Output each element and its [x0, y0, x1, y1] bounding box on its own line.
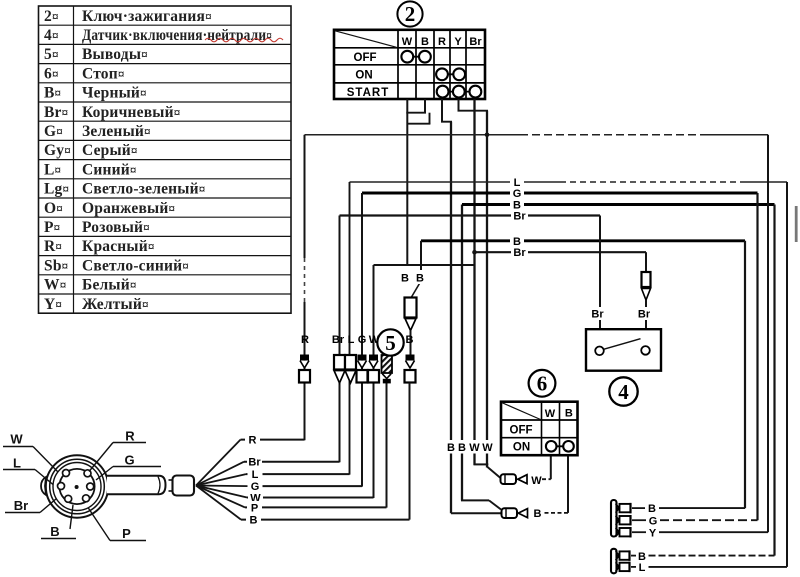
svg-text:G¤: G¤	[44, 123, 63, 140]
svg-text:B: B	[250, 515, 258, 527]
junction dot y135/x487	[485, 133, 490, 138]
svg-text:W: W	[469, 442, 480, 454]
wire fuse to switch4 right	[645, 300, 647, 346]
svg-text:Br: Br	[513, 211, 526, 223]
wire Y terminal	[632, 531, 768, 533]
wire B line y241	[421, 239, 745, 242]
svg-text:R: R	[438, 36, 446, 48]
svg-text:L: L	[13, 456, 21, 471]
connector pair Br	[334, 355, 345, 383]
svg-text:2¤: 2¤	[44, 8, 59, 25]
label W pointer	[3, 432, 58, 473]
wire B link	[410, 331, 412, 356]
label B pointer	[41, 505, 76, 539]
wire W feed join	[474, 464, 501, 478]
harness wire Br with label	[196, 455, 340, 485]
connector pair L	[345, 355, 356, 383]
svg-text:B¤: B¤	[44, 85, 61, 102]
wire Br down to switch4 left	[599, 216, 601, 347]
connector block right lower	[611, 549, 617, 574]
svg-text:G: G	[649, 516, 658, 528]
callout circle 4	[609, 377, 637, 405]
wire B line y204	[462, 203, 775, 206]
svg-text:Желтый¤: Желтый¤	[82, 296, 149, 313]
wire B right down x774	[773, 205, 775, 556]
wire B feed join	[451, 500, 502, 513]
svg-text:4¤: 4¤	[44, 27, 59, 44]
connector pair P	[382, 355, 393, 383]
svg-text:Br: Br	[14, 498, 28, 513]
svg-text:Датчик·включения·нейтрали¤: Датчик·включения·нейтрали¤	[82, 27, 272, 44]
svg-text:Br: Br	[469, 36, 482, 48]
label Br on line	[511, 209, 528, 223]
switch 2 START contacts R-Y-Br	[437, 86, 482, 98]
wire B down x409	[409, 383, 411, 520]
ignition switch 2 column headers	[402, 36, 483, 48]
label L on line	[510, 176, 524, 190]
svg-text:OFF: OFF	[354, 52, 377, 64]
svg-text:G: G	[124, 453, 134, 468]
legend table text	[44, 8, 272, 313]
label Br right	[636, 307, 653, 321]
label B terminal	[648, 503, 656, 515]
svg-text:B: B	[534, 508, 542, 520]
svg-text:L¤: L¤	[44, 161, 61, 178]
svg-text:W: W	[531, 475, 542, 487]
wire diag to B connector	[412, 284, 420, 298]
svg-text:B: B	[648, 503, 656, 515]
label B on line 2	[510, 234, 524, 248]
svg-text:L: L	[252, 469, 259, 481]
labels B B above connector	[398, 270, 428, 285]
svg-text:START: START	[347, 87, 389, 99]
svg-text:Gy¤: Gy¤	[44, 142, 71, 159]
wire jog stub	[429, 113, 431, 124]
svg-text:Br: Br	[638, 309, 651, 321]
svg-text:W: W	[402, 36, 413, 48]
wire B stub x421	[420, 241, 422, 284]
harness wire W with label	[196, 486, 374, 505]
svg-text:OFF: OFF	[510, 424, 533, 436]
svg-text:Lg¤: Lg¤	[44, 181, 69, 198]
svg-text:Br: Br	[332, 334, 345, 346]
harness wire G with label	[196, 480, 362, 494]
svg-text:5: 5	[385, 331, 396, 355]
svg-text:Белый¤: Белый¤	[82, 277, 137, 294]
svg-text:G: G	[358, 334, 367, 346]
svg-text:B: B	[50, 524, 59, 539]
wire R feed down x451	[450, 122, 452, 514]
terminal G	[616, 515, 631, 525]
svg-text:P: P	[251, 502, 258, 514]
wire jog R	[441, 121, 452, 123]
harness wire P with label	[196, 486, 387, 515]
svg-text:W: W	[545, 408, 556, 420]
svg-text:2: 2	[405, 2, 416, 26]
terminal B upper	[616, 503, 631, 513]
svg-text:Sb¤: Sb¤	[44, 257, 68, 274]
svg-text:R: R	[125, 429, 135, 444]
svg-text:5¤: 5¤	[44, 46, 59, 63]
svg-text:Выводы¤: Выводы¤	[82, 46, 148, 63]
labels B B W W	[443, 440, 495, 454]
wire B right down x745	[744, 241, 746, 508]
labels Br L G W at 5-group	[332, 334, 380, 346]
label G pointer	[96, 453, 161, 481]
label L pointer	[3, 456, 53, 485]
harness wire L with label	[196, 468, 350, 486]
svg-text:Зеленый¤: Зеленый¤	[82, 123, 151, 140]
svg-text:Розовый¤: Розовый¤	[82, 219, 150, 236]
svg-text:Коричневый¤: Коричневый¤	[82, 104, 180, 121]
wire R column stub	[441, 99, 443, 122]
inline connector B cylinder	[502, 508, 518, 518]
ignition switch 2 grid	[334, 30, 485, 99]
connector pair W	[368, 355, 379, 383]
wire L line y182	[350, 181, 788, 183]
label G on line	[510, 187, 524, 201]
label B on line	[510, 198, 524, 212]
wire Br column down x474	[473, 99, 475, 465]
wire jog lower	[407, 123, 430, 125]
svg-text:Серый¤: Серый¤	[82, 142, 138, 159]
connector block right upper	[611, 500, 617, 537]
callout circle 6	[529, 370, 556, 397]
switch 6 ON contacts W-B	[546, 441, 574, 452]
svg-text:P: P	[122, 526, 131, 541]
inline fuse connector Br	[642, 272, 651, 300]
inline connector W arrow	[516, 475, 527, 484]
cable to connector	[107, 476, 166, 494]
terminal B lower	[616, 550, 630, 560]
wire Y column stub	[458, 99, 460, 111]
wire Br down x339	[339, 216, 341, 463]
wire B terminal	[632, 507, 745, 509]
wire Br down to fuse	[645, 252, 647, 272]
svg-text:W: W	[10, 432, 23, 447]
svg-text:Br¤: Br¤	[44, 104, 68, 121]
wire W down x373	[373, 265, 375, 498]
switch 2 OFF contacts W-B	[401, 51, 430, 63]
svg-text:Светло-зеленый¤: Светло-зеленый¤	[82, 181, 205, 198]
round connector body	[41, 455, 108, 517]
wire W to switch6	[542, 455, 551, 479]
svg-text:Стоп¤: Стоп¤	[82, 65, 125, 82]
wire B column stub	[424, 99, 426, 113]
svg-text:Y: Y	[454, 36, 462, 48]
label Br on line 2	[511, 246, 528, 260]
wire L down x349	[349, 182, 351, 475]
label Y terminal	[649, 527, 657, 539]
svg-text:Y¤: Y¤	[44, 296, 62, 313]
wire L right down x787	[786, 182, 788, 567]
svg-text:B: B	[401, 273, 409, 285]
terminal Y	[616, 527, 631, 537]
harness wire B with label	[196, 486, 410, 527]
wire jog Y	[458, 110, 489, 112]
connector B upper	[405, 298, 417, 331]
svg-text:Черный¤: Черный¤	[82, 85, 147, 102]
wire top line y135	[305, 134, 769, 136]
wire B lower terminal	[631, 555, 775, 557]
connector pair B	[405, 355, 416, 383]
svg-text:Синий¤: Синий¤	[82, 161, 137, 178]
svg-text:Оранжевый¤: Оранжевый¤	[82, 200, 175, 217]
switch 2 ON contacts R-Y	[436, 68, 465, 80]
svg-text:B: B	[406, 334, 414, 346]
label B lower terminal	[638, 551, 646, 563]
neutral switch 4 body	[586, 329, 661, 371]
svg-text:L: L	[348, 334, 355, 346]
inline connector B arrow	[517, 509, 528, 518]
svg-text:L: L	[639, 562, 646, 574]
junction dot y252/x474	[472, 250, 477, 255]
stop switch 6 grid	[501, 402, 578, 456]
svg-text:W¤: W¤	[44, 277, 66, 294]
wire Y right down x768	[767, 135, 769, 532]
label G terminal	[649, 516, 658, 528]
wire bus y265	[374, 264, 475, 266]
svg-text:6: 6	[537, 372, 548, 396]
inline connector W cylinder	[501, 474, 517, 484]
wire P down x386	[386, 383, 388, 508]
label R pointer	[89, 429, 146, 472]
label Br left	[589, 307, 606, 321]
wire B to switch6	[545, 455, 569, 513]
svg-text:Ключ·зажигания¤: Ключ·зажигания¤	[82, 8, 212, 25]
wire down x462	[461, 205, 463, 501]
label W inline	[531, 475, 542, 487]
svg-text:P¤: P¤	[44, 219, 60, 236]
stop switch 6 row labels	[510, 424, 533, 453]
terminal L	[616, 562, 630, 572]
stop switch 6 headers	[545, 408, 573, 421]
svg-text:Светло-синий¤: Светло-синий¤	[82, 257, 189, 274]
svg-text:Красный¤: Красный¤	[82, 238, 155, 255]
wire G down x362	[361, 193, 363, 487]
small connector block	[169, 476, 195, 496]
svg-text:R¤: R¤	[44, 238, 62, 255]
wire L lower terminal	[631, 566, 787, 568]
svg-text:Y: Y	[649, 527, 657, 539]
wire jog B	[406, 112, 426, 114]
connector pair R	[299, 355, 310, 383]
wire G right down x757	[756, 193, 758, 520]
red spellcheck squiggle	[205, 38, 283, 42]
wire R down x304	[304, 135, 306, 440]
svg-text:Br: Br	[248, 457, 261, 469]
legend table grid	[39, 6, 292, 313]
svg-text:ON: ON	[355, 69, 372, 81]
svg-text:B: B	[416, 273, 424, 285]
label P pointer	[88, 508, 146, 542]
ignition switch 2 row labels	[347, 52, 389, 99]
wire Br line y252	[475, 251, 647, 253]
svg-text:6¤: 6¤	[44, 65, 59, 82]
wire G terminal	[632, 519, 758, 521]
svg-text:O¤: O¤	[44, 200, 63, 217]
svg-text:B: B	[447, 442, 455, 454]
callout circle 2	[397, 1, 422, 26]
svg-text:B: B	[565, 408, 573, 420]
harness wire R with label	[196, 433, 305, 485]
round connector pins	[58, 470, 94, 503]
svg-text:R: R	[301, 334, 309, 346]
svg-text:R: R	[249, 435, 257, 447]
svg-text:Br: Br	[591, 309, 604, 321]
scan artifact right edge	[795, 206, 798, 242]
wire G line y193	[362, 192, 758, 195]
callout circle 5	[377, 329, 403, 355]
label B at 5-group	[406, 334, 414, 346]
label L lower terminal	[639, 562, 646, 574]
svg-text:ON: ON	[513, 442, 530, 454]
label R at 5-group	[301, 334, 309, 346]
svg-text:B: B	[458, 442, 466, 454]
connector pair G	[357, 355, 368, 383]
wire Y feed down x487	[486, 111, 488, 468]
svg-text:Br: Br	[513, 247, 526, 259]
label Br pointer	[5, 498, 57, 513]
wire W column down	[406, 99, 408, 265]
svg-text:B: B	[421, 36, 429, 48]
svg-text:W: W	[482, 442, 493, 454]
wire Br line y215	[340, 214, 601, 216]
svg-text:4: 4	[618, 380, 629, 404]
label B inline	[531, 506, 545, 520]
svg-text:B: B	[638, 551, 646, 563]
